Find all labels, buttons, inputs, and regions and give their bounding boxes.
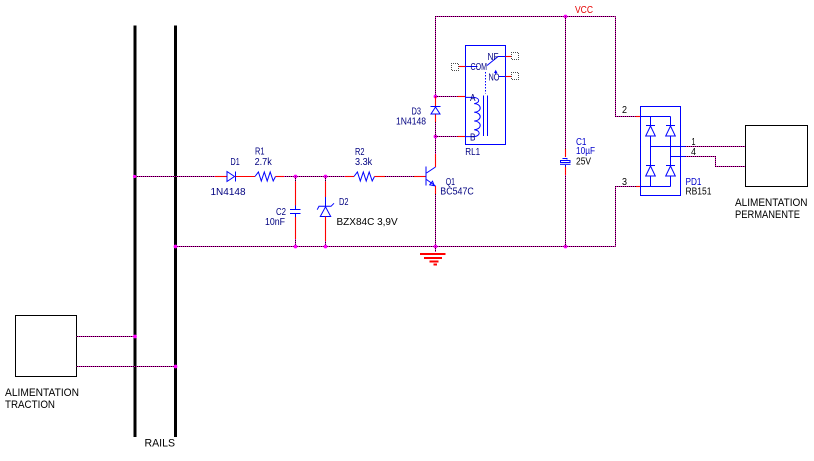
- svg-text:VCC: VCC: [575, 5, 593, 16]
- svg-text:RB151: RB151: [686, 187, 712, 198]
- pin relay A: [458, 96, 466, 98]
- junction traction/left rail: [133, 335, 137, 339]
- wire traction box to left rail: [77, 336, 136, 338]
- box ALIMENTATION PERMANENTE: [746, 126, 808, 187]
- bridge diode top-left: [646, 117, 656, 147]
- wire VCC rail: [436, 17, 616, 97]
- wire R1 to R2: [284, 176, 345, 178]
- junction D3 bottom / relay B: [434, 135, 438, 139]
- diode D1 1N4148: [215, 172, 255, 182]
- wire R2 to Q1 base: [385, 176, 414, 178]
- junction C2 bottom: [294, 245, 298, 249]
- relay switch lever COM-NF: [487, 57, 498, 66]
- wire Q1 collector to node B: [435, 137, 437, 155]
- wire VCC to C1: [565, 17, 567, 150]
- svg-text:2.7k: 2.7k: [255, 157, 273, 168]
- resistor R1: [255, 172, 276, 181]
- bridge diode bottom-right: [666, 157, 676, 187]
- svg-text:ALIMENTATION: ALIMENTATION: [5, 387, 79, 399]
- terminal square COM: [452, 64, 459, 71]
- svg-text:10nF: 10nF: [265, 217, 285, 228]
- relay coil: [466, 97, 481, 136]
- svg-text:NF: NF: [488, 52, 499, 63]
- pin NF: [506, 56, 512, 58]
- svg-text:B: B: [470, 133, 476, 144]
- wire bridge pin 1 to permanent box: [686, 146, 746, 148]
- terminal square NF: [512, 53, 519, 60]
- junction D2 bottom: [324, 245, 328, 249]
- diode D3 1N4148: [431, 97, 441, 122]
- relay contact COM line: [466, 66, 478, 68]
- svg-text:D1: D1: [231, 157, 241, 168]
- svg-text:1N4148: 1N4148: [396, 117, 426, 128]
- svg-text:10µF: 10µF: [576, 146, 595, 157]
- wire bridge pin 4 to permanent box: [686, 157, 746, 167]
- relay actuation dotted link: [485, 72, 487, 94]
- svg-text:NO: NO: [489, 73, 500, 84]
- svg-text:R1: R1: [255, 147, 265, 158]
- svg-text:ALIMENTATION: ALIMENTATION: [735, 197, 808, 209]
- junction VCC / C1: [564, 15, 568, 19]
- relay RL1 body: [466, 46, 506, 145]
- wire node to D2: [325, 177, 327, 182]
- bridge top bus: [641, 116, 671, 118]
- relay core: [483, 96, 485, 137]
- wire node A to relay pin A: [436, 96, 458, 98]
- junction node D2 top: [324, 175, 328, 179]
- wire D3 anode to node B: [435, 122, 437, 137]
- svg-text:BC547C: BC547C: [440, 187, 474, 198]
- wire Q1 emitter to ground rail: [435, 194, 437, 247]
- wire ground rail: [176, 246, 616, 248]
- wire to ground symbol: [435, 247, 437, 253]
- wire C1 to ground rail: [565, 175, 567, 247]
- svg-text:BZX84C 3,9V: BZX84C 3,9V: [337, 217, 398, 228]
- zener diode D2 BZX84C 3,9V: [317, 182, 334, 242]
- box ALIMENTATION TRACTION: [16, 316, 77, 377]
- junction C1 bottom: [564, 245, 568, 249]
- bridge diode bottom-left: [646, 147, 656, 187]
- junction node C2 top: [294, 175, 298, 179]
- bridge pin 4 line: [671, 156, 686, 158]
- wire node to C2: [295, 177, 297, 182]
- svg-text:PERMANENTE: PERMANENTE: [735, 209, 800, 221]
- svg-text:2: 2: [622, 105, 627, 116]
- pin COM: [459, 66, 466, 68]
- junction traction/right rail: [174, 365, 178, 369]
- transistor Q1 BC547C: [414, 154, 436, 194]
- resistor R2: [345, 172, 385, 181]
- svg-text:RL1: RL1: [465, 147, 480, 158]
- bridge rectifier PD1 RB151 body: [641, 107, 681, 196]
- terminal square NO: [512, 73, 519, 80]
- svg-text:D2: D2: [339, 197, 349, 208]
- wire VCC to bridge pin 2: [616, 17, 636, 117]
- wire C2 to ground rail: [295, 239, 297, 247]
- pin bridge 3: [636, 186, 641, 188]
- svg-text:RAILS: RAILS: [145, 438, 176, 450]
- wire left rail to D1: [135, 176, 216, 178]
- svg-text:25V: 25V: [576, 157, 591, 168]
- wire node B to relay pin B: [436, 136, 458, 138]
- relay contact NO line: [498, 76, 505, 78]
- bridge diode top-right: [666, 117, 676, 157]
- bridge pin 1 line: [651, 146, 686, 148]
- pin bridge 2: [636, 116, 641, 118]
- svg-text:COM: COM: [471, 62, 488, 73]
- ground: [420, 254, 446, 265]
- junction right rail / ground rail: [174, 245, 178, 249]
- pin NO: [506, 76, 512, 78]
- junction left rail / base wire: [133, 175, 136, 178]
- pin relay B: [458, 136, 466, 138]
- capacitor C1 10uF 25V (polarised): [560, 149, 571, 175]
- wire D2 to ground rail: [325, 241, 327, 247]
- wire traction box to right rail: [77, 366, 176, 368]
- rail right (track): [174, 26, 177, 438]
- junction ground symbol: [434, 245, 438, 249]
- svg-text:TRACTION: TRACTION: [5, 399, 55, 411]
- svg-text:1N4148: 1N4148: [211, 187, 246, 198]
- bridge bottom bus: [641, 186, 671, 188]
- rail left (track): [134, 26, 137, 438]
- svg-text:3: 3: [622, 177, 627, 188]
- pin R1 right: [276, 176, 285, 178]
- svg-text:A: A: [470, 93, 476, 104]
- junction D3 top / relay A: [434, 95, 438, 99]
- wire ground rail to bridge pin 3: [616, 187, 637, 247]
- relay NO arrow: [494, 70, 497, 75]
- capacitor C2 10nF: [290, 182, 301, 240]
- svg-text:3.3k: 3.3k: [355, 157, 373, 168]
- relay contact NF line: [498, 56, 506, 58]
